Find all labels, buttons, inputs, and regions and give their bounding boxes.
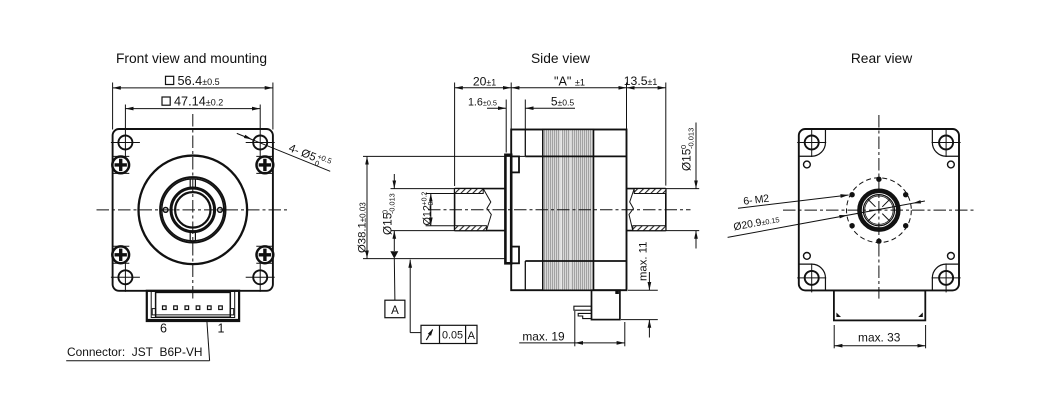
flange clip top bbox=[511, 156, 519, 172]
dimension O12 text bbox=[421, 192, 435, 226]
svg-text:0: 0 bbox=[428, 202, 435, 206]
connector housing outer bbox=[147, 291, 239, 321]
rear connector housing bbox=[834, 290, 925, 320]
svg-text:1.6±0.5: 1.6±0.5 bbox=[468, 96, 497, 108]
rear screw hole bottom-right bbox=[948, 253, 955, 260]
rear bearing inner circle bbox=[863, 195, 894, 226]
screw head bottom-right bbox=[256, 246, 273, 263]
FRONT VIEW bbox=[66, 51, 333, 361]
label 4-O5 leader bbox=[237, 133, 330, 171]
bolt circle dashed bbox=[847, 178, 912, 243]
mounting hole bottom-left bbox=[111, 263, 140, 292]
mounting hole top-right bbox=[246, 128, 275, 157]
svg-text:20±1: 20±1 bbox=[473, 74, 496, 88]
dimension max11 lines bbox=[648, 272, 650, 290]
small hole right bbox=[218, 207, 223, 212]
mounting ring outer circle bbox=[160, 177, 225, 242]
svg-text:Connector: JST B6P-VH: Connector: JST B6P-VH bbox=[67, 345, 202, 359]
dimension O12 line bbox=[430, 194, 432, 226]
svg-text:Front view and mounting: Front view and mounting bbox=[116, 51, 267, 66]
rear hole top-right bbox=[932, 128, 961, 157]
dimension 56.4 bbox=[113, 76, 273, 129]
connector label leader bbox=[66, 321, 209, 361]
rear plate square outline bbox=[799, 129, 959, 290]
dimension O15 right: extension lines bbox=[666, 189, 699, 231]
top dimensions: extension lines bbox=[455, 83, 666, 187]
svg-text:1: 1 bbox=[218, 322, 225, 336]
REAR VIEW bbox=[728, 51, 976, 348]
body line top bbox=[525, 155, 626, 157]
end cap line bottom bbox=[524, 261, 526, 290]
body line bottom bbox=[525, 260, 626, 262]
dimension O15 left: extension lines bbox=[391, 189, 455, 231]
svg-text:-0.013: -0.013 bbox=[687, 128, 696, 149]
runout FCF box bbox=[421, 325, 477, 343]
dimension O38.1: extension lines bbox=[363, 156, 525, 258]
corner relief bottom-right bbox=[932, 264, 959, 290]
connector body bbox=[152, 292, 234, 317]
svg-text:0.05: 0.05 bbox=[442, 330, 463, 342]
dimension max11: extension lines bbox=[621, 290, 658, 319]
connector pins 1-6 bbox=[163, 306, 223, 310]
svg-text:Ø15: Ø15 bbox=[381, 212, 395, 235]
label 4-O5 text bbox=[286, 141, 333, 172]
dimension O12: extension lines bbox=[426, 194, 455, 226]
svg-text:Ø12: Ø12 bbox=[421, 205, 433, 225]
center line horizontal bbox=[97, 209, 290, 211]
dimension 1.6 bbox=[487, 107, 506, 109]
svg-text:Side view: Side view bbox=[531, 51, 590, 66]
mounting hole top-left bbox=[111, 128, 140, 157]
dimension O38.1 line bbox=[366, 156, 368, 258]
rear connector clip right bbox=[918, 313, 923, 318]
dimension O15 right text bbox=[679, 128, 695, 171]
dimension max11 text bbox=[638, 242, 650, 281]
svg-text:A: A bbox=[391, 305, 399, 317]
dimension O38.1 text bbox=[357, 202, 369, 253]
motor body outline bbox=[511, 130, 626, 291]
M2 holes x6 bbox=[849, 177, 908, 244]
left shaft break line bbox=[483, 189, 491, 231]
side connector pin 1 bbox=[574, 306, 592, 310]
runout FCF leader bbox=[410, 260, 421, 333]
runout symbol bbox=[426, 330, 432, 340]
bottom notch bbox=[190, 231, 195, 240]
side connector housing bbox=[592, 290, 620, 319]
center line vertical bbox=[192, 114, 194, 299]
svg-text:max. 33: max. 33 bbox=[858, 331, 901, 345]
flange clip bottom bbox=[511, 247, 519, 264]
rear screw hole top-right bbox=[948, 161, 955, 168]
rear screw hole bottom-left bbox=[804, 253, 811, 260]
front plate square outline bbox=[113, 129, 273, 291]
rear hole bottom-right bbox=[932, 263, 961, 292]
dimension 5 bbox=[525, 107, 575, 109]
dimension 47.14 bbox=[125, 97, 260, 130]
screw head top-left bbox=[112, 156, 129, 173]
svg-text:max. 19: max. 19 bbox=[522, 329, 565, 343]
rear hole bottom-left bbox=[797, 263, 826, 292]
front flange plate bbox=[505, 155, 511, 263]
rear bearing inner circle 2 bbox=[865, 196, 893, 224]
svg-text:"A" ±1: "A" ±1 bbox=[554, 74, 585, 88]
dimension A bbox=[511, 87, 626, 89]
shaft bore circle bbox=[175, 192, 210, 227]
dimension 20 bbox=[455, 87, 512, 89]
spokes bbox=[868, 200, 889, 221]
top notch bbox=[190, 179, 195, 188]
datum A triangle bbox=[390, 251, 398, 258]
mounting ring inner circle bbox=[162, 179, 224, 241]
dimension max33 line bbox=[834, 345, 925, 347]
center axis line bbox=[428, 209, 691, 211]
svg-text:56.4±0.5: 56.4±0.5 bbox=[178, 74, 220, 88]
svg-text:-0.013: -0.013 bbox=[387, 193, 396, 214]
pilot boss circle bbox=[139, 156, 248, 265]
right shaft break line bbox=[629, 189, 634, 231]
svg-text:5±0.5: 5±0.5 bbox=[551, 94, 575, 108]
rear connector clip left bbox=[836, 313, 841, 318]
corner relief top-right bbox=[932, 129, 959, 156]
center line vertical bbox=[878, 115, 880, 299]
side connector pin 2 bbox=[578, 313, 591, 318]
svg-text:13.5±1: 13.5±1 bbox=[624, 74, 658, 88]
small hole left bbox=[163, 207, 168, 212]
rear bearing ring bbox=[860, 191, 899, 230]
end cap line top bbox=[524, 130, 526, 157]
dimension O15 left lines bbox=[393, 174, 395, 189]
svg-text:Ø15: Ø15 bbox=[680, 148, 694, 171]
center line horizontal bbox=[783, 209, 975, 211]
dimension 13.5 bbox=[627, 87, 666, 89]
mounting hole bottom-right bbox=[246, 263, 275, 292]
dimension max19: extension lines bbox=[575, 311, 625, 346]
svg-text:6: 6 bbox=[160, 322, 167, 336]
corner relief bottom-left bbox=[799, 264, 826, 290]
screw head top-right bbox=[256, 156, 273, 173]
right shaft hatch bands bbox=[634, 189, 666, 194]
left shaft hatch bands bbox=[455, 189, 484, 194]
shaft circle bbox=[171, 188, 215, 232]
dimension max19 line bbox=[519, 342, 575, 344]
corner relief top-left bbox=[799, 129, 826, 156]
dimension max33: extension lines bbox=[834, 325, 925, 348]
label 6-M2 leader bbox=[738, 195, 849, 208]
dimension O15 right lines bbox=[695, 123, 697, 189]
datum A box bbox=[393, 259, 396, 301]
lamination stack hatch bbox=[543, 130, 594, 291]
svg-text:47.14±0.2: 47.14±0.2 bbox=[174, 95, 223, 109]
rear screw hole top-left bbox=[804, 161, 811, 168]
svg-text:Ø38.1±0.03: Ø38.1±0.03 bbox=[357, 202, 369, 253]
svg-text:A: A bbox=[468, 330, 476, 342]
right shaft outline bbox=[627, 189, 666, 231]
SIDE VIEW bbox=[357, 51, 700, 346]
dimension O15 left text bbox=[380, 193, 396, 235]
screw head bottom-left bbox=[112, 246, 129, 263]
svg-text:Rear view: Rear view bbox=[851, 51, 912, 66]
rear hole top-left bbox=[797, 128, 826, 157]
left shaft outline bbox=[455, 189, 506, 231]
label O20.9 leader bbox=[728, 200, 925, 237]
svg-text:max. 11: max. 11 bbox=[638, 242, 650, 281]
